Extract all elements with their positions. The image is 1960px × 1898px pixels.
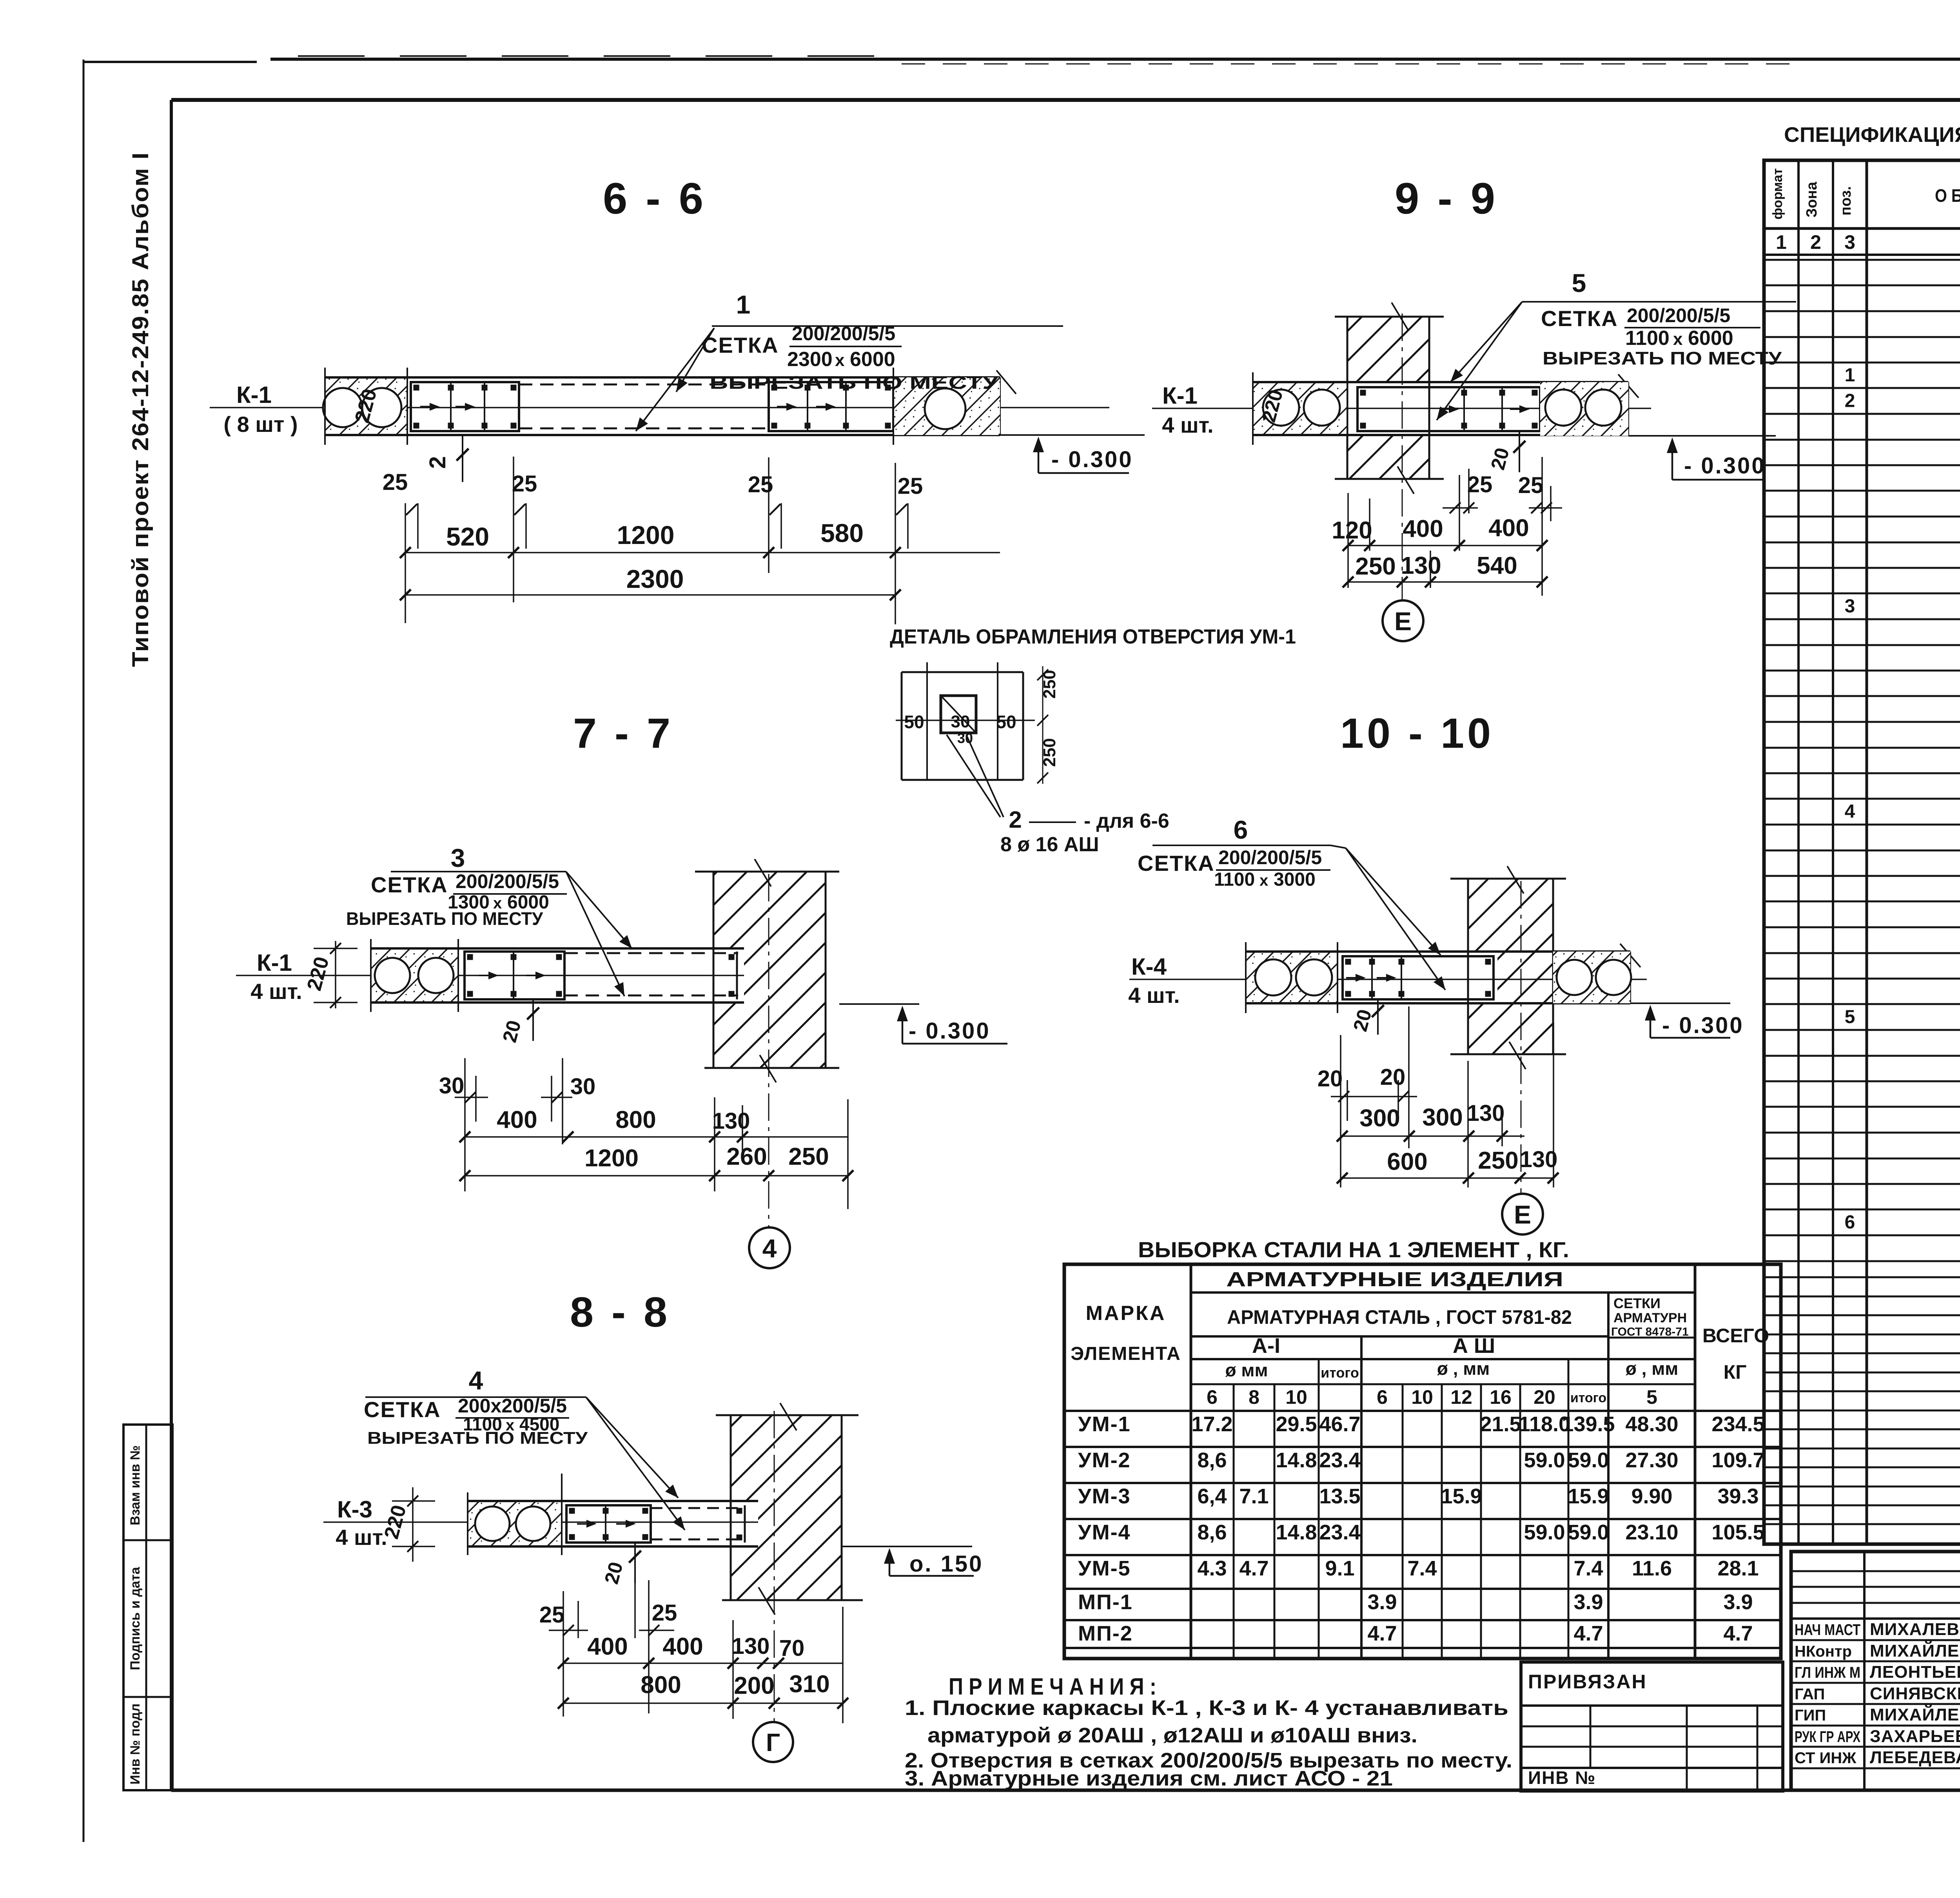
svg-text:ВЫРЕЗАТЬ ПО МЕСТУ: ВЫРЕЗАТЬ ПО МЕСТУ <box>1543 348 1782 368</box>
steel table row lines <box>1191 1291 1695 1294</box>
svg-text:11.6: 11.6 <box>1632 1557 1672 1580</box>
svg-text:МП-2: МП-2 <box>1078 1622 1133 1645</box>
svg-text:540: 540 <box>1477 552 1517 579</box>
svg-text:30: 30 <box>951 712 970 731</box>
svg-text:46.7: 46.7 <box>1319 1412 1360 1436</box>
svg-text:130: 130 <box>1467 1100 1505 1126</box>
svg-text:СЕТКИ: СЕТКИ <box>1613 1295 1661 1311</box>
svg-text:200/200/5/5: 200/200/5/5 <box>1218 847 1322 868</box>
svg-text:12: 12 <box>1450 1386 1472 1408</box>
svg-text:НАЧ МАСТ: НАЧ МАСТ <box>1795 1621 1860 1639</box>
svg-text:8,6: 8,6 <box>1197 1448 1227 1472</box>
svg-text:9.90: 9.90 <box>1631 1485 1672 1508</box>
section 10-10 beam outline <box>1246 950 1630 953</box>
svg-text:МИХАЛЕВ: МИХАЛЕВ <box>1870 1620 1960 1639</box>
svg-text:СЕТКА: СЕТКА <box>702 333 779 357</box>
svg-text:20: 20 <box>1534 1386 1555 1408</box>
svg-text:3000: 3000 <box>1274 869 1316 890</box>
section 10-10 dimension row 2 <box>1342 1177 1553 1179</box>
svg-text:АРМАТУРНАЯ СТАЛЬ , ГОСТ 5781: АРМАТУРНАЯ СТАЛЬ , ГОСТ 5781-82 <box>1227 1306 1572 1328</box>
svg-text:арматурой ø 20АШ , ø12АШ и: арматурой ø 20АШ , ø12АШ и ø10АШ вниз. <box>927 1724 1417 1747</box>
svg-text:6: 6 <box>1377 1386 1388 1408</box>
svg-text:27.30: 27.30 <box>1625 1448 1678 1472</box>
svg-text:х: х <box>835 351 845 370</box>
svg-text:Зона: Зона <box>1804 181 1820 218</box>
svg-text:ДЕТАЛЬ ОБРАМЛЕНИЯ ОТВЕРСТИЯ УМ: ДЕТАЛЬ ОБРАМЛЕНИЯ ОТВЕРСТИЯ УМ-1 <box>890 625 1296 648</box>
svg-text:28.1: 28.1 <box>1717 1557 1759 1580</box>
svg-text:25: 25 <box>898 473 923 499</box>
svg-text:10: 10 <box>1411 1386 1433 1408</box>
svg-text:АРМАТУРНЫЕ ИЗДЕЛИЯ: АРМАТУРНЫЕ ИЗДЕЛИЯ <box>1226 1268 1563 1291</box>
svg-text:СЕТКА: СЕТКА <box>1138 851 1215 876</box>
section 8-8 wall hatch <box>731 1415 842 1501</box>
svg-text:50: 50 <box>904 712 924 732</box>
svg-text:14.8: 14.8 <box>1276 1521 1317 1544</box>
svg-text:УМ-3: УМ-3 <box>1078 1485 1131 1508</box>
svg-text:4: 4 <box>1845 801 1855 822</box>
svg-text:ЭЛЕМЕНТА: ЭЛЕМЕНТА <box>1071 1343 1181 1364</box>
svg-text:4.7: 4.7 <box>1573 1622 1603 1645</box>
svg-text:4: 4 <box>762 1234 777 1263</box>
svg-text:25: 25 <box>539 1602 565 1628</box>
svg-text:КГ: КГ <box>1724 1361 1747 1383</box>
svg-text:15.9: 15.9 <box>1568 1485 1609 1508</box>
detail outer square <box>902 671 1023 673</box>
section 6-6 hollow core circles left <box>323 388 362 427</box>
svg-text:МП-1: МП-1 <box>1078 1590 1133 1614</box>
section 6-6 axis line <box>210 407 1109 408</box>
svg-text:300: 300 <box>1359 1105 1400 1132</box>
svg-text:- 0.300: - 0.300 <box>1684 453 1766 479</box>
svg-text:400: 400 <box>1488 515 1529 542</box>
section 9-9 wall centerline <box>1402 314 1403 600</box>
section 8-8 rebar cage <box>566 1505 651 1543</box>
section 6-6 left hatched block <box>325 377 407 435</box>
section 7-7 axis line <box>236 975 744 976</box>
section 6-6 rebar cage 1 <box>411 382 519 431</box>
svg-text:3.9: 3.9 <box>1573 1590 1603 1614</box>
title block frame <box>1791 1552 1960 1790</box>
svg-text:15.9: 15.9 <box>1441 1485 1482 1508</box>
detail inner square <box>941 696 976 733</box>
svg-text:200х200/5/5: 200х200/5/5 <box>458 1395 567 1417</box>
svg-text:3: 3 <box>451 843 465 872</box>
svg-text:29.5: 29.5 <box>1276 1412 1317 1436</box>
svg-text:3.9: 3.9 <box>1367 1590 1397 1614</box>
svg-text:400: 400 <box>662 1633 703 1660</box>
svg-text:Инв № подл: Инв № подл <box>128 1704 143 1785</box>
svg-text:250: 250 <box>788 1143 829 1170</box>
svg-text:ЛЕБЕДЕВА: ЛЕБЕДЕВА <box>1870 1748 1960 1767</box>
section 6-6 rebar cage 2 <box>769 382 893 431</box>
drawing frame <box>171 98 1960 102</box>
svg-text:ЛЕОНТЬЕВ: ЛЕОНТЬЕВ <box>1870 1662 1960 1682</box>
svg-text:К-3: К-3 <box>337 1496 372 1523</box>
detail leader 2 dlya 6-6 <box>947 735 1000 817</box>
svg-text:400: 400 <box>587 1633 628 1660</box>
svg-text:20: 20 <box>1318 1066 1343 1091</box>
svg-text:1: 1 <box>1776 231 1787 253</box>
section 8-8 axis bubble G <box>753 1722 793 1762</box>
svg-text:10: 10 <box>1285 1386 1307 1408</box>
section 9-9 axis bubble E <box>1383 600 1423 641</box>
svg-text:200/200/5/5: 200/200/5/5 <box>792 323 895 344</box>
svg-text:200: 200 <box>734 1672 774 1699</box>
section 10-10 rebar cage <box>1343 956 1494 999</box>
svg-text:4 шт.: 4 шт. <box>336 1525 387 1550</box>
svg-text:2: 2 <box>1845 391 1855 412</box>
title block vertical lines <box>1863 1552 1866 1790</box>
page outer trim line left <box>83 60 85 1842</box>
svg-text:ЗАХАРЬЕВ: ЗАХАРЬЕВ <box>1870 1727 1960 1746</box>
svg-text:СЕТКА: СЕТКА <box>1541 306 1618 331</box>
svg-text:СТ ИНЖ: СТ ИНЖ <box>1795 1749 1857 1767</box>
svg-text:139.5: 139.5 <box>1562 1412 1615 1436</box>
svg-text:59.0: 59.0 <box>1568 1448 1609 1472</box>
section 7-7 dimension row 2 <box>465 1175 848 1177</box>
section 8-8 elevation mark 0.150 <box>842 1546 972 1547</box>
section 9-9 pos 20 mark <box>1519 431 1520 472</box>
svg-text:260: 260 <box>726 1143 767 1170</box>
section 9-9 wall hatch lower <box>1347 435 1429 479</box>
svg-text:300: 300 <box>1422 1104 1463 1131</box>
svg-text:5: 5 <box>1572 268 1586 297</box>
svg-text:23.4: 23.4 <box>1319 1448 1360 1472</box>
svg-text:АРМАТУРН: АРМАТУРН <box>1613 1311 1687 1325</box>
svg-text:ГОСТ 8478-71: ГОСТ 8478-71 <box>1611 1325 1689 1338</box>
svg-text:800: 800 <box>641 1671 681 1699</box>
svg-text:400: 400 <box>1403 515 1443 542</box>
steel table outer frame <box>1064 1264 1781 1659</box>
svg-text:130: 130 <box>712 1108 750 1134</box>
section 9-9 extension lines <box>1347 493 1349 588</box>
section 7-7 beam outline <box>371 947 744 950</box>
svg-text:23.10: 23.10 <box>1625 1521 1678 1544</box>
svg-text:109.7: 109.7 <box>1711 1448 1764 1472</box>
svg-text:25: 25 <box>652 1600 677 1626</box>
privyazan block <box>1521 1662 1783 1791</box>
svg-text:30: 30 <box>439 1073 465 1099</box>
section 8-8 left hatched block <box>468 1501 562 1546</box>
svg-text:ПРИВЯЗАН: ПРИВЯЗАН <box>1528 1671 1647 1693</box>
section 6-6 elevation mark -0.300 <box>1000 434 1145 436</box>
svg-text:7 - 7: 7 - 7 <box>573 709 673 757</box>
svg-text:4.7: 4.7 <box>1239 1557 1269 1580</box>
section 10-10 wall hatch <box>1468 879 1553 952</box>
section 10-10 dimension row 1 <box>1342 1135 1524 1137</box>
svg-text:ВЫРЕЗАТЬ ПО МЕСТУ: ВЫРЕЗАТЬ ПО МЕСТУ <box>367 1428 588 1448</box>
svg-text:59.0: 59.0 <box>1568 1521 1609 1544</box>
svg-text:НКонтр: НКонтр <box>1795 1643 1852 1660</box>
svg-text:6: 6 <box>1234 815 1248 844</box>
svg-text:3: 3 <box>1844 231 1855 253</box>
svg-text:Взам инв №: Взам инв № <box>128 1445 143 1525</box>
svg-text:6: 6 <box>1207 1386 1218 1408</box>
svg-text:9 - 9: 9 - 9 <box>1395 174 1498 223</box>
svg-text:7.4: 7.4 <box>1573 1557 1603 1580</box>
section 10-10 axis line <box>1129 979 1647 980</box>
steel table column lines <box>1190 1264 1192 1659</box>
svg-text:МАРКА: МАРКА <box>1086 1302 1166 1325</box>
section 8-8 wall centerline <box>774 1411 775 1722</box>
svg-text:- для 6-6: - для 6-6 <box>1084 810 1169 832</box>
svg-text:УМ-4: УМ-4 <box>1078 1521 1131 1544</box>
svg-text:50: 50 <box>996 712 1016 732</box>
svg-text:48.30: 48.30 <box>1625 1412 1678 1436</box>
svg-text:МИХАЙЛЕНКО: МИХАЙЛЕНКО <box>1870 1704 1960 1724</box>
svg-text:х: х <box>1673 330 1683 349</box>
svg-text:о. 150: о. 150 <box>909 1551 983 1577</box>
svg-text:7.1: 7.1 <box>1239 1485 1269 1508</box>
section 10-10 left hatched block <box>1246 952 1338 1003</box>
svg-text:УМ-2: УМ-2 <box>1078 1448 1131 1472</box>
svg-text:2: 2 <box>1810 231 1821 253</box>
section 6-6 extension lines <box>405 503 406 623</box>
section 7-7 rebar cage <box>465 952 564 999</box>
section 8-8 dimension row 2 <box>563 1702 843 1704</box>
svg-text:105.5: 105.5 <box>1711 1521 1764 1544</box>
svg-text:8 - 8: 8 - 8 <box>570 1288 670 1336</box>
svg-text:А-I: А-I <box>1252 1334 1280 1358</box>
section 7-7 wall centerline <box>768 874 769 1227</box>
svg-text:25: 25 <box>1467 472 1493 497</box>
svg-text:400: 400 <box>497 1106 537 1133</box>
svg-text:1: 1 <box>1845 365 1855 386</box>
svg-text:( 8 шт ): ( 8 шт ) <box>223 412 298 437</box>
svg-text:234.5: 234.5 <box>1711 1412 1764 1436</box>
section 8-8 cage end bracket <box>744 1505 746 1543</box>
svg-text:А Ш: А Ш <box>1453 1334 1495 1358</box>
svg-text:4: 4 <box>469 1366 483 1395</box>
svg-text:ø , мм: ø , мм <box>1626 1358 1679 1379</box>
svg-text:8: 8 <box>1249 1386 1259 1408</box>
svg-text:СПЕЦИФИКАЦИЯ МОНОЛИТНЫХ: СПЕЦИФИКАЦИЯ МОНОЛИТНЫХ ЖЕЛЕЗОБЕТОННЫХ У… <box>1784 123 1960 147</box>
svg-text:ГАП: ГАП <box>1795 1686 1825 1703</box>
svg-text:1100: 1100 <box>1214 869 1255 890</box>
svg-text:3. Арматурные изделия см. л: 3. Арматурные изделия см. лист АСО - 21 <box>905 1767 1393 1790</box>
svg-text:5: 5 <box>1646 1386 1657 1408</box>
section 10-10 extension lines <box>1340 1035 1341 1187</box>
svg-text:ИНВ №: ИНВ № <box>1528 1767 1596 1788</box>
svg-text:6000: 6000 <box>1688 327 1733 350</box>
svg-text:130: 130 <box>1401 552 1441 579</box>
svg-text:формат: формат <box>1770 168 1785 219</box>
svg-text:СИНЯВСКИЙ: СИНЯВСКИЙ <box>1870 1683 1960 1703</box>
svg-text:4 шт.: 4 шт. <box>1162 413 1213 437</box>
section 9-9 dimension row 1 <box>1348 545 1542 546</box>
svg-text:14.8: 14.8 <box>1276 1448 1317 1472</box>
section 10-10 axis bubble E <box>1502 1194 1543 1235</box>
svg-text:ГИП: ГИП <box>1795 1707 1826 1724</box>
svg-text:250: 250 <box>1355 553 1396 580</box>
svg-text:Е: Е <box>1394 607 1412 636</box>
svg-text:6,4: 6,4 <box>1197 1485 1227 1508</box>
section 6-6 pos 2 mark <box>462 435 463 482</box>
svg-text:130: 130 <box>1520 1147 1558 1172</box>
svg-text:МИХАЙЛЕНКО: МИХАЙЛЕНКО <box>1870 1641 1960 1661</box>
svg-text:16: 16 <box>1490 1386 1512 1408</box>
svg-text:1200: 1200 <box>584 1145 639 1172</box>
svg-text:СЕТКА: СЕТКА <box>371 872 448 897</box>
svg-text:- 0.300: - 0.300 <box>1662 1013 1744 1038</box>
svg-text:РУК ГР АРХ: РУК ГР АРХ <box>1795 1728 1860 1746</box>
svg-text:23.4: 23.4 <box>1319 1521 1360 1544</box>
svg-text:1100: 1100 <box>1625 327 1670 350</box>
svg-text:3.9: 3.9 <box>1723 1590 1753 1614</box>
svg-text:ВЫРЕЗАТЬ ПО МЕСТУ: ВЫРЕЗАТЬ ПО МЕСТУ <box>710 372 999 393</box>
svg-text:1200: 1200 <box>617 520 675 549</box>
svg-text:4.3: 4.3 <box>1197 1557 1227 1580</box>
svg-text:4.7: 4.7 <box>1723 1622 1753 1645</box>
svg-text:59.0: 59.0 <box>1524 1521 1565 1544</box>
svg-text:5: 5 <box>1845 1007 1855 1028</box>
svg-text:59.0: 59.0 <box>1524 1448 1565 1472</box>
svg-text:ВЫРЕЗАТЬ ПО МЕСТУ: ВЫРЕЗАТЬ ПО МЕСТУ <box>346 908 543 929</box>
svg-text:4.7: 4.7 <box>1367 1622 1397 1645</box>
svg-text:4 шт.: 4 шт. <box>250 979 302 1004</box>
svg-text:К-1: К-1 <box>1162 383 1198 409</box>
section 9-9 axis line <box>1152 408 1651 409</box>
svg-text:580: 580 <box>820 518 864 547</box>
svg-text:2300: 2300 <box>626 564 684 593</box>
section 7-7 elevation mark -0.300 <box>839 1003 919 1005</box>
section 6-6 dimension line row 2 (2300) <box>405 594 895 596</box>
section 10-10 elevation mark -0.300 <box>1630 1002 1730 1004</box>
specification table column lines <box>1797 160 1800 1544</box>
section 9-9 wall hatch upper <box>1347 317 1429 382</box>
svg-text:7.4: 7.4 <box>1407 1557 1437 1580</box>
svg-text:О Б О З Н А Ч Е Н И Е: О Б О З Н А Ч Е Н И Е <box>1935 185 1960 206</box>
section 7-7 left hatched block <box>371 948 458 1002</box>
section 9-9 elevation mark -0.300 <box>1628 435 1776 437</box>
specification table header <box>1764 227 1960 230</box>
svg-text:20: 20 <box>1380 1064 1406 1090</box>
title block left small rows <box>1791 1570 1960 1572</box>
svg-text:25: 25 <box>512 471 537 497</box>
svg-text:1: 1 <box>736 290 751 319</box>
svg-text:70: 70 <box>779 1635 805 1661</box>
section 9-9 rebar cage <box>1357 387 1540 431</box>
section 9-9 dimension row 2 <box>1348 581 1542 583</box>
sidebar stamp boxes <box>123 1425 172 1790</box>
svg-text:- 0.300: - 0.300 <box>1051 447 1133 472</box>
svg-text:800: 800 <box>615 1106 656 1133</box>
svg-text:30: 30 <box>570 1074 596 1099</box>
svg-text:УМ-5: УМ-5 <box>1078 1557 1131 1580</box>
svg-text:2300: 2300 <box>787 348 833 371</box>
section 7-7 extension lines <box>464 1058 466 1191</box>
page outer trim line top <box>83 61 257 63</box>
section 8-8 pos 20 mark <box>634 1543 636 1583</box>
section 9-9 beam outline <box>1253 381 1628 383</box>
svg-text:ВЫБОРКА СТАЛИ НА 1 Э: ВЫБОРКА СТАЛИ НА 1 ЭЛЕМЕНТ , КГ. <box>1138 1237 1569 1262</box>
svg-text:итого: итого <box>1321 1365 1359 1381</box>
svg-text:СЕТКА: СЕТКА <box>364 1397 441 1422</box>
svg-text:Г: Г <box>766 1728 780 1757</box>
svg-text:3: 3 <box>1845 596 1855 617</box>
svg-text:2: 2 <box>1009 807 1022 833</box>
svg-text:39.3: 39.3 <box>1717 1485 1759 1508</box>
section 7-7 mesh dashed lines <box>564 952 738 954</box>
svg-text:6000: 6000 <box>850 348 895 371</box>
svg-text:Е: Е <box>1514 1200 1531 1229</box>
svg-text:поз.: поз. <box>1838 186 1854 216</box>
section 9-9 right hatched block <box>1540 382 1628 436</box>
svg-text:17.2: 17.2 <box>1191 1412 1232 1436</box>
svg-text:250: 250 <box>1478 1147 1518 1174</box>
section 7-7 dim 220 <box>335 941 336 1008</box>
svg-text:10 - 10: 10 - 10 <box>1340 709 1494 757</box>
svg-text:4 шт.: 4 шт. <box>1128 983 1180 1008</box>
svg-text:8 ø 16 АШ: 8 ø 16 АШ <box>1000 833 1099 856</box>
section 6-6 right hatched block <box>893 377 1000 435</box>
svg-text:К-1: К-1 <box>257 950 292 976</box>
section 7-7 wall hatch <box>713 872 826 948</box>
section 6-6 mesh dashed lines <box>519 384 769 386</box>
svg-text:25: 25 <box>1518 473 1544 498</box>
svg-text:Типовой проект 264-12-249.85 А: Типовой проект 264-12-249.85 Альбом I <box>128 152 153 667</box>
section 8-8 mesh dashed lines <box>651 1507 745 1509</box>
svg-text:ВСЕГО: ВСЕГО <box>1702 1325 1769 1347</box>
svg-text:600: 600 <box>1387 1148 1427 1175</box>
svg-text:310: 310 <box>789 1671 829 1698</box>
svg-text:13.5: 13.5 <box>1319 1485 1360 1508</box>
svg-text:ø мм: ø мм <box>1225 1360 1268 1380</box>
section 7-7 axis bubble 4 <box>749 1227 790 1268</box>
section 7-7 cage end bracket <box>736 952 738 999</box>
svg-text:итого: итого <box>1570 1390 1606 1405</box>
svg-text:х: х <box>1259 872 1268 889</box>
svg-text:25: 25 <box>383 470 408 495</box>
section 8-8 axis line <box>323 1521 758 1523</box>
specification table row lines <box>1764 259 1960 261</box>
svg-text:200/200/5/5: 200/200/5/5 <box>456 870 559 892</box>
svg-text:520: 520 <box>446 522 489 551</box>
svg-text:Подпись и дата: Подпись и дата <box>128 1566 143 1670</box>
section 8-8 dimension row 1 <box>563 1662 843 1664</box>
section 10-10 right hatched block <box>1553 952 1630 1003</box>
section 8-8 extension lines <box>563 1591 564 1717</box>
svg-text:130: 130 <box>732 1633 770 1659</box>
svg-text:К-1: К-1 <box>236 382 272 408</box>
svg-text:6: 6 <box>1845 1212 1855 1233</box>
svg-text:120: 120 <box>1332 517 1372 544</box>
section 6-6 beam outline <box>325 376 1000 379</box>
section 8-8 dim 220 <box>412 1487 414 1562</box>
svg-text:21.5: 21.5 <box>1480 1412 1521 1436</box>
svg-text:П Р И М Е Ч А Н И Я :: П Р И М Е Ч А Н И Я : <box>949 1673 1156 1700</box>
specification table outer frame <box>1764 160 1960 1544</box>
svg-text:200/200/5/5: 200/200/5/5 <box>1627 305 1730 326</box>
section 6-6 dimension line row 1 <box>405 552 1000 553</box>
svg-text:25: 25 <box>748 472 773 497</box>
svg-text:2: 2 <box>425 456 450 469</box>
svg-text:9.1: 9.1 <box>1325 1557 1354 1580</box>
svg-text:УМ-1: УМ-1 <box>1078 1412 1131 1436</box>
section 7-7 pos 20 mark <box>532 999 534 1041</box>
section 8-8 beam outline <box>468 1500 758 1502</box>
svg-text:К-4: К-4 <box>1131 954 1167 980</box>
svg-text:ГЛ ИНЖ М: ГЛ ИНЖ М <box>1795 1664 1860 1681</box>
svg-text:8,6: 8,6 <box>1197 1521 1227 1544</box>
section 10-10 pos 20 mark <box>1377 999 1379 1035</box>
section 10-10 wall centerline <box>1521 881 1522 1194</box>
svg-text:1. Плоские каркасы К-1 , К-3: 1. Плоские каркасы К-1 , К-3 и К- 4 уста… <box>905 1696 1508 1720</box>
section 9-9 left hatched block <box>1253 382 1347 436</box>
section 7-7 dimension row 1 <box>465 1136 848 1138</box>
svg-text:6 - 6: 6 - 6 <box>603 174 706 223</box>
svg-text:ø , мм: ø , мм <box>1437 1358 1490 1379</box>
